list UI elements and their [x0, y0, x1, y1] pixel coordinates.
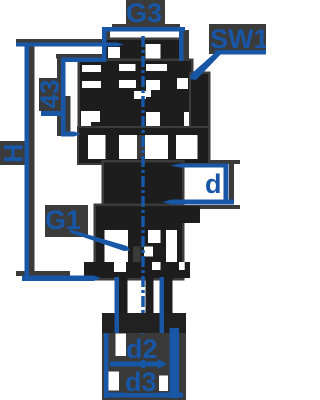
G1 leader line — [69, 229, 130, 251]
H dim vertical — [25, 43, 30, 282]
halo 43 top arm — [56, 54, 106, 59]
43 bracket top arm — [61, 58, 106, 63]
right protrusion lower — [198, 135, 209, 162]
pin1 ext line — [115, 277, 120, 333]
halo G3 label box — [126, 0, 165, 24]
cap notch right — [146, 44, 161, 59]
right bracket vertical — [170, 328, 180, 398]
base band slot c — [179, 262, 185, 270]
svg-text:H: H — [0, 144, 29, 164]
H bracket top arm — [16, 43, 124, 47]
body notch center small — [134, 91, 146, 99]
panel gray box — [102, 316, 186, 400]
flange center strip gray — [137, 135, 145, 159]
flange col 3 — [168, 135, 176, 159]
body notch k — [184, 112, 192, 127]
H bracket bottom arm — [22, 276, 101, 282]
d dim vertical — [224, 164, 229, 204]
pin 2 — [146, 278, 154, 316]
d3 dim line — [107, 393, 183, 398]
svg-text:SW1: SW1 — [210, 24, 266, 54]
svg-text:d3: d3 — [125, 367, 157, 397]
halo H letter box — [0, 141, 25, 165]
flange gap 1 — [88, 135, 106, 159]
halo d top arm — [197, 160, 240, 164]
stem halo — [102, 160, 185, 208]
bottom dimension panel — [102, 313, 186, 400]
d2 dim line with arrow — [110, 359, 167, 369]
base slot tall — [166, 230, 177, 273]
label d3 — [125, 368, 158, 393]
pin 1 — [119, 278, 128, 316]
stem — [104, 163, 182, 207]
svg-text:G1: G1 — [45, 205, 81, 235]
base — [96, 206, 182, 278]
43 label underline — [41, 111, 65, 116]
halo H vertical — [29, 41, 35, 278]
panel dark top band — [102, 313, 186, 333]
base bottom band — [84, 262, 190, 278]
base notch small — [144, 247, 153, 257]
flange gap 4 — [176, 135, 198, 159]
halo G3 left ext — [106, 30, 110, 64]
base band slot b — [152, 262, 161, 270]
d dim top arm with arrow — [170, 164, 228, 168]
halo G3 right ext — [183, 30, 189, 64]
label d2 — [126, 334, 158, 360]
panel notch left of d3 — [107, 372, 119, 391]
base gray blob — [133, 247, 141, 264]
svg-text:43: 43 — [35, 80, 65, 109]
43 bracket vertical — [61, 58, 66, 137]
body notch f — [119, 80, 136, 88]
body notch b — [119, 64, 136, 71]
halo 43 bracket vertical — [57, 54, 61, 136]
flange top band — [79, 128, 208, 136]
base notch big left — [105, 230, 129, 268]
G3 left ext line — [102, 27, 107, 61]
halo H bottom arm — [16, 271, 70, 276]
panel notch right of d3 — [159, 376, 168, 392]
body notch c — [146, 64, 167, 71]
body notch a — [82, 65, 101, 72]
svg-text:d: d — [205, 169, 222, 199]
center ext in panel — [141, 333, 145, 395]
body notch h1 — [177, 78, 188, 89]
base halo — [94, 204, 185, 281]
centerline (dash-dot) — [141, 36, 145, 316]
flange halo — [77, 126, 210, 165]
halo G1 underline — [64, 227, 84, 235]
d dim bottom arm with arrow — [162, 200, 234, 205]
halo SW1 label box — [209, 24, 266, 54]
pin3 ext line — [160, 277, 165, 333]
black body parts with gray halos — [77, 38, 211, 317]
right protrusion halo — [189, 72, 211, 165]
cap halo — [104, 38, 186, 64]
body notch j — [146, 112, 160, 128]
main body halo — [78, 59, 194, 134]
43 bracket bottom arm — [61, 132, 81, 137]
svg-text:G3: G3 — [126, 0, 162, 28]
halo layer (gray copies behind colored elements) — [0, 0, 266, 278]
SW1 underline — [215, 50, 266, 55]
cap of switch — [106, 40, 183, 62]
right protrusion upper — [191, 74, 208, 135]
flange bottom band — [79, 159, 208, 163]
cap notch left — [108, 47, 120, 58]
halo d bottom arm — [162, 205, 240, 209]
halo d vertical — [229, 161, 234, 201]
body notch g — [146, 80, 160, 97]
pin 3 — [164, 278, 173, 316]
halo H top arm — [16, 39, 110, 43]
d3 left bracket vertical — [104, 333, 109, 398]
dimension G3 line — [102, 27, 185, 32]
base band slot a — [114, 262, 126, 272]
flange gap 3 — [145, 135, 168, 159]
G3 right ext line — [179, 27, 184, 61]
base notch a — [148, 230, 161, 243]
main body of switch — [80, 61, 191, 131]
body notch iL — [81, 111, 100, 128]
halo G1 label box — [45, 205, 88, 237]
panel notch near d2 — [116, 334, 127, 357]
SW1 leader line — [190, 50, 222, 80]
flange col 2 — [106, 135, 120, 159]
blue layer — [16, 27, 266, 398]
halo 43 label box — [39, 78, 58, 111]
base tab right — [182, 206, 200, 223]
flange col 1 — [79, 135, 88, 159]
halo G3 dim line — [112, 24, 180, 28]
flange gap 2 — [119, 135, 137, 159]
svg-text:d2: d2 — [126, 334, 158, 364]
body notch e — [82, 81, 101, 88]
